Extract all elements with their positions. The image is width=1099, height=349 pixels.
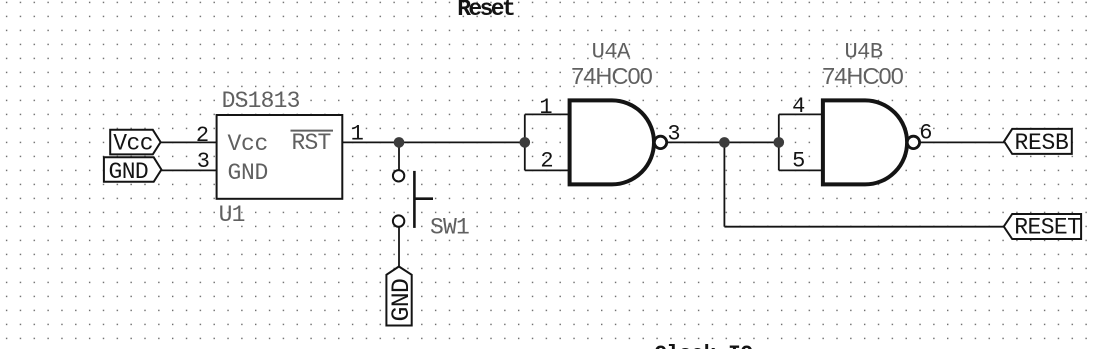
svg-text:6: 6: [919, 121, 932, 146]
svg-text:DS1813: DS1813: [222, 88, 300, 114]
svg-text:U1: U1: [219, 202, 245, 228]
svg-text:Reset: Reset: [457, 0, 514, 22]
svg-text:SW1: SW1: [430, 214, 469, 240]
svg-text:1: 1: [539, 95, 552, 120]
svg-text:RESB: RESB: [1015, 130, 1069, 156]
svg-text:RST: RST: [292, 130, 331, 156]
svg-text:74HC00: 74HC00: [571, 63, 653, 89]
svg-text:RESET: RESET: [1014, 215, 1080, 241]
svg-text:GND: GND: [109, 159, 149, 185]
svg-text:4: 4: [792, 94, 805, 119]
svg-text:U4A: U4A: [592, 39, 631, 64]
svg-text:1: 1: [351, 121, 364, 146]
svg-text:Vcc: Vcc: [113, 130, 153, 156]
svg-text:Vcc: Vcc: [228, 131, 269, 157]
svg-text:3: 3: [197, 149, 210, 174]
svg-text:2: 2: [196, 123, 209, 148]
svg-text:GND: GND: [387, 279, 416, 322]
svg-text:2: 2: [540, 149, 553, 174]
svg-text:GND: GND: [228, 160, 269, 186]
svg-text:74HC00: 74HC00: [822, 63, 904, 89]
svg-text:3: 3: [667, 121, 680, 146]
svg-text:U4B: U4B: [844, 39, 882, 64]
svg-text:5: 5: [792, 148, 805, 173]
svg-text:Clock IO: Clock IO: [654, 344, 752, 349]
